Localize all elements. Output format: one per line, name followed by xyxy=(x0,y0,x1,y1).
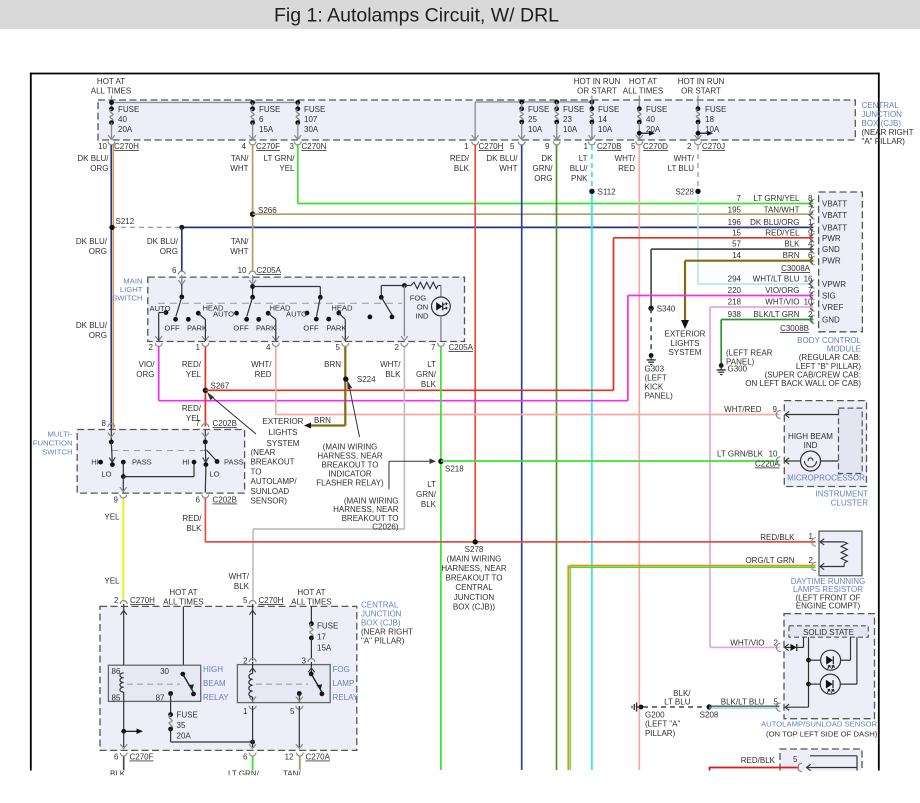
svg-text:YEL: YEL xyxy=(186,370,202,379)
wire DK BLU/WHT from pin 5 xyxy=(521,145,523,770)
multi-function switch box xyxy=(77,430,244,494)
svg-text:HOT IN RUN: HOT IN RUN xyxy=(574,77,621,86)
svg-text:HARNESS, NEAR: HARNESS, NEAR xyxy=(317,452,383,461)
svg-text:C270B: C270B xyxy=(597,142,621,151)
BCM pin 16 WHT/LT BLU VPWR xyxy=(810,280,814,288)
svg-text:FUSE: FUSE xyxy=(177,711,198,720)
svg-text:2: 2 xyxy=(395,343,400,352)
BCM pin 1 DK BLU/ORG VBATT xyxy=(810,223,814,231)
svg-text:RED/: RED/ xyxy=(182,514,202,523)
svg-text:ENGINE COMPT): ENGINE COMPT) xyxy=(796,602,861,611)
MLS switch section 3 xyxy=(319,287,321,298)
svg-text:PARK: PARK xyxy=(256,324,276,333)
svg-text:ON: ON xyxy=(417,302,428,311)
svg-text:S340: S340 xyxy=(657,305,676,314)
internal wire pin5 to fog coil xyxy=(252,604,254,661)
svg-text:DK BLU/ORG: DK BLU/ORG xyxy=(750,218,799,227)
central junction box (bottom) xyxy=(100,606,357,750)
svg-text:10A: 10A xyxy=(563,125,578,134)
svg-text:PARK: PARK xyxy=(326,324,346,333)
svg-text:BLK: BLK xyxy=(454,164,470,173)
wire TAN/WHT from C270F-4 xyxy=(252,145,254,272)
svg-text:CENTRAL: CENTRAL xyxy=(862,101,900,110)
svg-text:BLK: BLK xyxy=(421,380,437,389)
svg-text:CLUSTER: CLUSTER xyxy=(831,499,869,508)
wire WHT/LT BLU from C270J-2 xyxy=(697,145,699,191)
svg-text:195: 195 xyxy=(728,205,742,214)
svg-text:18: 18 xyxy=(705,115,714,124)
autolamp/sunload sensor box xyxy=(784,614,875,719)
wire BLK dashed to G303 xyxy=(650,308,652,354)
fuse 6 15A xyxy=(252,103,254,109)
svg-text:87: 87 xyxy=(156,694,165,703)
CJB pin 12 C270A bottom xyxy=(296,753,303,756)
BCM pin 2 BLK/LT GRN GND xyxy=(810,315,814,323)
svg-text:CENTRAL: CENTRAL xyxy=(455,583,493,592)
svg-text:SYSTEM: SYSTEM xyxy=(267,439,300,448)
BCM pin 6 BRN PWR xyxy=(810,257,814,265)
svg-text:ALL TIMES: ALL TIMES xyxy=(163,598,203,607)
svg-text:C270N: C270N xyxy=(302,142,327,151)
svg-text:WHT/: WHT/ xyxy=(229,572,250,581)
svg-text:938: 938 xyxy=(728,310,742,319)
svg-text:2: 2 xyxy=(808,310,813,319)
svg-text:BLK: BLK xyxy=(186,524,202,533)
splice S266 xyxy=(250,212,255,217)
wire RED/YEL from MLS-1 xyxy=(204,347,206,427)
svg-text:LO: LO xyxy=(101,470,111,479)
sensor main rail xyxy=(808,637,810,707)
svg-text:PWR: PWR xyxy=(822,257,841,266)
svg-text:BREAKOUT: BREAKOUT xyxy=(251,458,295,467)
svg-text:JUNCTION: JUNCTION xyxy=(862,110,903,119)
svg-text:VBATT: VBATT xyxy=(822,211,847,220)
svg-text:C270D: C270D xyxy=(643,142,668,151)
svg-text:15A: 15A xyxy=(317,644,332,653)
pointer to S218 xyxy=(388,461,390,489)
connector C270H pin 10 xyxy=(108,142,115,145)
svg-text:FUSE: FUSE xyxy=(118,105,139,114)
svg-text:(NEAR RIGHT: (NEAR RIGHT xyxy=(862,128,914,137)
svg-text:BRN: BRN xyxy=(783,251,800,260)
svg-text:14: 14 xyxy=(732,251,741,260)
svg-text:SENSOR): SENSOR) xyxy=(251,497,288,506)
svg-text:C270J: C270J xyxy=(702,142,725,151)
svg-text:YEL: YEL xyxy=(104,513,120,522)
svg-text:HEAD: HEAD xyxy=(331,303,353,312)
svg-text:3: 3 xyxy=(290,142,295,151)
fog relay pin 1 xyxy=(249,706,256,709)
wire RED/YEL BCM PWR xyxy=(614,237,814,239)
wire TAN/WHT to BCM VBATT xyxy=(253,213,814,215)
wire LT GRN/BLK to cluster pin 10 xyxy=(441,460,780,462)
svg-text:S278: S278 xyxy=(465,545,484,554)
connector C270J pin 2 xyxy=(695,142,702,145)
svg-text:JUNCTION: JUNCTION xyxy=(361,610,402,619)
splice S212 xyxy=(112,226,182,228)
svg-text:RED/: RED/ xyxy=(182,404,202,413)
wire LT GRN/YEL from C270N-3 to BCM VBATT xyxy=(297,145,299,204)
svg-text:GRN/: GRN/ xyxy=(416,490,437,499)
wire WHT/VIO BCM VREF xyxy=(710,306,814,308)
svg-text:SUNLOAD: SUNLOAD xyxy=(251,487,290,496)
svg-text:HOT AT: HOT AT xyxy=(629,77,657,86)
svg-text:AUTOLAMP/: AUTOLAMP/ xyxy=(251,477,298,486)
MFS pin 6 drop xyxy=(204,465,207,493)
svg-text:SYSTEM: SYSTEM xyxy=(669,348,702,357)
svg-text:BLU/: BLU/ xyxy=(570,164,589,173)
internal wire 30 feed xyxy=(182,606,184,674)
svg-text:6: 6 xyxy=(808,251,813,260)
svg-text:WHT/LT BLU: WHT/LT BLU xyxy=(753,275,800,284)
BCM pin 9 RED/YEL PWR xyxy=(810,234,814,242)
svg-text:9: 9 xyxy=(808,228,813,237)
BCM pin 7 VIO/ORG SIG xyxy=(810,291,814,299)
svg-text:C202B: C202B xyxy=(213,419,237,428)
svg-text:1: 1 xyxy=(808,218,813,227)
svg-text:FOG: FOG xyxy=(333,665,350,674)
svg-text:(NEAR RIGHT: (NEAR RIGHT xyxy=(361,628,413,637)
svg-text:SWITCH: SWITCH xyxy=(112,294,142,303)
wire BLK/LT BLU solid to sensor xyxy=(709,705,779,707)
svg-text:5: 5 xyxy=(631,142,636,151)
svg-text:C3008A: C3008A xyxy=(781,264,811,273)
svg-text:WHT/VIO: WHT/VIO xyxy=(765,298,799,307)
svg-text:GND: GND xyxy=(822,316,840,325)
svg-text:VBATT: VBATT xyxy=(822,223,847,232)
splice S218 xyxy=(438,459,443,464)
MFS pin 7 top / C202B xyxy=(202,424,209,427)
instrument cluster box xyxy=(784,401,866,487)
svg-text:(LEFT: (LEFT xyxy=(645,374,667,383)
svg-text:CENTRAL: CENTRAL xyxy=(361,601,399,610)
svg-text:6: 6 xyxy=(172,266,177,275)
connector pin 9 xyxy=(553,142,560,145)
MLS pin 6 top xyxy=(178,271,185,274)
wire ORG/LT GRN xyxy=(569,565,816,567)
svg-text:SWITCH: SWITCH xyxy=(42,448,72,457)
svg-text:HOT AT: HOT AT xyxy=(169,588,197,597)
svg-text:16: 16 xyxy=(804,275,813,284)
svg-text:7: 7 xyxy=(737,194,742,203)
svg-text:20A: 20A xyxy=(118,125,133,134)
svg-text:FUSE: FUSE xyxy=(705,105,726,114)
svg-text:5: 5 xyxy=(336,343,341,352)
svg-text:"A" PILLAR): "A" PILLAR) xyxy=(361,637,405,646)
BCM pin 7 TAN/WHT VBATT xyxy=(810,211,814,219)
BRN arrow to exterior lights xyxy=(309,424,345,426)
svg-text:RED: RED xyxy=(618,164,635,173)
svg-text:IND: IND xyxy=(804,441,818,450)
svg-text:2: 2 xyxy=(114,596,119,605)
svg-text:C270F: C270F xyxy=(256,142,280,151)
svg-text:6: 6 xyxy=(243,753,248,762)
svg-text:C270F: C270F xyxy=(130,753,154,762)
svg-text:RELAY: RELAY xyxy=(333,693,359,702)
svg-text:10A: 10A xyxy=(705,125,720,134)
svg-text:PANEL): PANEL) xyxy=(645,392,674,401)
svg-text:OFF: OFF xyxy=(303,324,319,333)
svg-text:6: 6 xyxy=(259,115,264,124)
connector C270H pin 1 xyxy=(472,142,479,145)
wire WHT/VIO to sensor pin 2 xyxy=(710,646,780,648)
svg-text:S112: S112 xyxy=(598,188,617,197)
svg-text:BLK/LT BLU: BLK/LT BLU xyxy=(721,698,765,707)
svg-text:5: 5 xyxy=(290,707,295,716)
svg-text:GRN/: GRN/ xyxy=(533,164,554,173)
svg-text:4: 4 xyxy=(808,240,813,249)
fog relay pin 2 xyxy=(249,659,256,662)
svg-text:107: 107 xyxy=(304,115,318,124)
svg-text:8: 8 xyxy=(808,194,813,203)
phototransistor 2 xyxy=(809,683,821,685)
svg-text:C202B: C202B xyxy=(213,496,237,505)
svg-text:KICK: KICK xyxy=(645,383,664,392)
svg-text:LT: LT xyxy=(579,154,588,163)
svg-text:S208: S208 xyxy=(700,711,719,720)
wire DK GRN/ORG from pin 9 xyxy=(556,145,558,770)
fuse 35 20A xyxy=(170,694,172,715)
svg-text:FUSE: FUSE xyxy=(646,105,667,114)
MLS pin 1 bottom xyxy=(202,343,209,346)
svg-text:294: 294 xyxy=(728,275,742,284)
svg-text:DK BLU/: DK BLU/ xyxy=(77,154,109,163)
svg-text:YEL: YEL xyxy=(104,577,120,586)
wire BLK/LT BLU dashed from G200 xyxy=(643,706,706,708)
internal wire pin2 to HB coil xyxy=(123,604,125,673)
fuse 14 10A xyxy=(591,96,593,109)
wire BLK BCM GND to S340 xyxy=(651,248,813,250)
svg-text:OFF: OFF xyxy=(164,324,180,333)
splice S267 xyxy=(203,388,208,393)
svg-text:ORG: ORG xyxy=(136,370,154,379)
svg-text:JUNCTION: JUNCTION xyxy=(454,593,495,602)
svg-text:2: 2 xyxy=(149,343,154,352)
wire: left fuse bus xyxy=(111,96,113,109)
svg-text:9: 9 xyxy=(545,142,550,151)
svg-text:VIO/ORG: VIO/ORG xyxy=(765,286,799,295)
resistor element xyxy=(820,541,844,543)
svg-text:ORG: ORG xyxy=(89,331,107,340)
svg-text:5: 5 xyxy=(774,698,779,707)
MFS left switch xyxy=(110,430,112,442)
fuse 25 10A xyxy=(519,106,524,111)
svg-text:1: 1 xyxy=(809,532,814,541)
svg-text:PILLAR): PILLAR) xyxy=(645,729,676,738)
svg-text:4: 4 xyxy=(266,343,271,352)
svg-text:FOG: FOG xyxy=(410,293,427,302)
MLS pin 10 top / C205A xyxy=(249,271,256,274)
fog relay pin 5 xyxy=(297,691,302,696)
svg-text:40: 40 xyxy=(118,115,127,124)
svg-text:HI: HI xyxy=(91,458,99,467)
HB relay link xyxy=(127,683,180,685)
svg-text:10: 10 xyxy=(98,142,107,151)
connector C270B pin 1 xyxy=(589,142,596,145)
MLS pin 2 bottom xyxy=(155,343,162,346)
fog relay pin 3 xyxy=(308,659,315,662)
wire LT BLU/PNK from C270B-1 xyxy=(591,145,593,191)
svg-text:LT: LT xyxy=(427,480,436,489)
svg-text:HI: HI xyxy=(182,458,190,467)
svg-text:BLK: BLK xyxy=(234,582,250,591)
svg-text:VPWR: VPWR xyxy=(822,280,846,289)
connector C270N pin 3 xyxy=(294,142,301,145)
MFS pin 8 top xyxy=(108,424,115,427)
svg-text:BRN: BRN xyxy=(324,360,341,369)
HB relay switch xyxy=(180,672,185,677)
MLS switch section 1 xyxy=(181,284,183,297)
svg-text:MICROPROCESSOR: MICROPROCESSOR xyxy=(787,474,865,483)
svg-text:25: 25 xyxy=(528,115,537,124)
svg-text:(LEFT "A": (LEFT "A" xyxy=(645,720,680,729)
svg-text:GND: GND xyxy=(822,245,840,254)
sensor pin 2 + diode xyxy=(776,643,780,651)
svg-text:5: 5 xyxy=(510,142,515,151)
wire YEL from MFS-9 xyxy=(122,499,124,601)
MLS pin 7 bottom / C205A xyxy=(438,343,445,346)
svg-text:(MAIN WIRING: (MAIN WIRING xyxy=(323,443,378,452)
fog ind resistor xyxy=(411,282,438,289)
wire LT GRN/BLK from MLS-7 xyxy=(440,347,442,770)
svg-text:15A: 15A xyxy=(259,125,274,134)
svg-text:40: 40 xyxy=(646,115,655,124)
svg-text:196: 196 xyxy=(728,218,742,227)
wire TAN below C270A xyxy=(299,757,301,771)
svg-text:RED: RED xyxy=(255,370,272,379)
svg-text:(NEAR: (NEAR xyxy=(251,448,276,457)
diagram outer border xyxy=(30,73,880,75)
connector pin 5 xyxy=(518,142,525,145)
wire VIO/ORG from MLS-2 xyxy=(158,347,160,401)
svg-text:C270H: C270H xyxy=(479,142,504,151)
svg-text:FUNCTION: FUNCTION xyxy=(33,439,73,448)
svg-text:5: 5 xyxy=(793,755,798,764)
svg-text:INSTRUMENT: INSTRUMENT xyxy=(816,490,869,499)
fuse 17 15A xyxy=(310,606,312,623)
svg-text:OFF: OFF xyxy=(233,324,249,333)
phototransistor 1 xyxy=(809,659,821,661)
svg-text:"A" PILLAR): "A" PILLAR) xyxy=(862,137,906,146)
svg-text:7: 7 xyxy=(808,205,813,214)
fog on indicator lamp xyxy=(432,297,451,316)
svg-text:ORG/LT GRN: ORG/LT GRN xyxy=(745,556,794,565)
fuse 107 30A xyxy=(297,103,299,109)
svg-text:RED/: RED/ xyxy=(182,360,202,369)
wire VIO/ORG BCM SIG xyxy=(628,295,814,297)
MLS mechanical link xyxy=(158,302,402,304)
svg-text:TAN/: TAN/ xyxy=(231,237,249,246)
svg-text:9: 9 xyxy=(114,496,119,505)
svg-text:FUSE: FUSE xyxy=(259,105,280,114)
BCM pin 10 WHT/VIO VREF xyxy=(810,303,814,311)
svg-text:OR START: OR START xyxy=(577,87,617,96)
wire BRN from MLS-5 xyxy=(344,347,346,426)
svg-text:12: 12 xyxy=(285,753,294,762)
pointer to S267 xyxy=(209,394,256,434)
svg-text:BOX (CJB): BOX (CJB) xyxy=(361,619,401,628)
svg-text:VBATT: VBATT xyxy=(822,200,847,209)
MFS link line xyxy=(112,450,205,452)
svg-text:BREAKOUT TO: BREAKOUT TO xyxy=(322,461,379,470)
svg-text:S267: S267 xyxy=(211,382,230,391)
main light switch box xyxy=(148,277,465,341)
svg-text:30A: 30A xyxy=(304,125,319,134)
svg-text:PARK: PARK xyxy=(187,324,207,333)
svg-text:10A: 10A xyxy=(598,125,613,134)
svg-text:TAN/: TAN/ xyxy=(231,154,249,163)
svg-text:BOX (CJB): BOX (CJB) xyxy=(862,119,902,128)
svg-text:TAN/WHT: TAN/WHT xyxy=(764,205,800,214)
CJB pin 6 bottom xyxy=(249,753,256,756)
svg-text:(LEFT REAR: (LEFT REAR xyxy=(726,349,773,358)
svg-text:S212: S212 xyxy=(116,217,135,226)
svg-text:218: 218 xyxy=(728,298,742,307)
svg-text:WHT: WHT xyxy=(230,164,248,173)
svg-text:HIGH BEAM: HIGH BEAM xyxy=(788,432,833,441)
wire RED/BLK from C270H-1 xyxy=(474,145,476,542)
svg-text:C2026): C2026) xyxy=(372,523,399,532)
svg-text:WHT: WHT xyxy=(499,164,517,173)
ground G303 xyxy=(649,353,654,358)
MFS pin 9 drop xyxy=(122,477,124,493)
svg-text:ALL TIMES: ALL TIMES xyxy=(623,87,663,96)
svg-text:RED/YEL: RED/YEL xyxy=(765,228,800,237)
svg-text:C270H: C270H xyxy=(130,596,155,605)
CJB pin 5 C270H top xyxy=(249,601,256,604)
splice S112 xyxy=(589,189,594,194)
wire WHT/BLK from MLS-2 to C270H-5 xyxy=(403,347,405,529)
high beam relay box xyxy=(108,665,200,701)
splice S224 xyxy=(343,376,348,381)
svg-text:DK BLU/: DK BLU/ xyxy=(486,154,518,163)
wire RED/YEL to BCM PWR riser xyxy=(205,389,613,391)
svg-text:3: 3 xyxy=(302,657,307,666)
svg-text:PASS: PASS xyxy=(224,458,244,467)
svg-text:WHT: WHT xyxy=(230,247,248,256)
svg-text:4: 4 xyxy=(242,142,247,151)
svg-text:G200: G200 xyxy=(645,711,665,720)
svg-text:VIO/: VIO/ xyxy=(138,360,155,369)
svg-text:WHT/: WHT/ xyxy=(251,360,272,369)
svg-text:1: 1 xyxy=(196,343,201,352)
svg-text:SIG: SIG xyxy=(822,292,836,301)
MFS pass link xyxy=(122,462,124,477)
svg-text:1: 1 xyxy=(464,142,469,151)
svg-text:BLK: BLK xyxy=(385,370,401,379)
svg-text:LT GRN/: LT GRN/ xyxy=(264,154,296,163)
arrow to exterior lights system xyxy=(681,320,689,329)
svg-text:WHT/: WHT/ xyxy=(674,154,695,163)
wire DK BLU/ORG branch to MLS pin 6 xyxy=(181,227,183,271)
svg-text:5: 5 xyxy=(243,596,248,605)
CJB pin 2 C270H top xyxy=(120,601,127,604)
splice S340 xyxy=(648,306,653,311)
svg-text:BREAKOUT TO: BREAKOUT TO xyxy=(446,574,503,583)
svg-text:GRN/: GRN/ xyxy=(416,370,437,379)
svg-text:ALL TIMES: ALL TIMES xyxy=(91,87,131,96)
pointer to S224 xyxy=(349,383,360,437)
svg-text:VREF: VREF xyxy=(822,303,843,312)
svg-text:INDICATOR: INDICATOR xyxy=(328,470,371,479)
svg-text:LIGHTS: LIGHTS xyxy=(269,428,298,437)
svg-text:PASS: PASS xyxy=(132,458,152,467)
wire DK BLU/ORG to BCM VBATT xyxy=(182,226,814,228)
connector C270D pin 5 xyxy=(636,142,643,145)
svg-text:MULTI-: MULTI- xyxy=(47,430,72,439)
svg-text:LO: LO xyxy=(209,470,219,479)
wire WHT/RED from C270D-5 xyxy=(638,145,640,770)
